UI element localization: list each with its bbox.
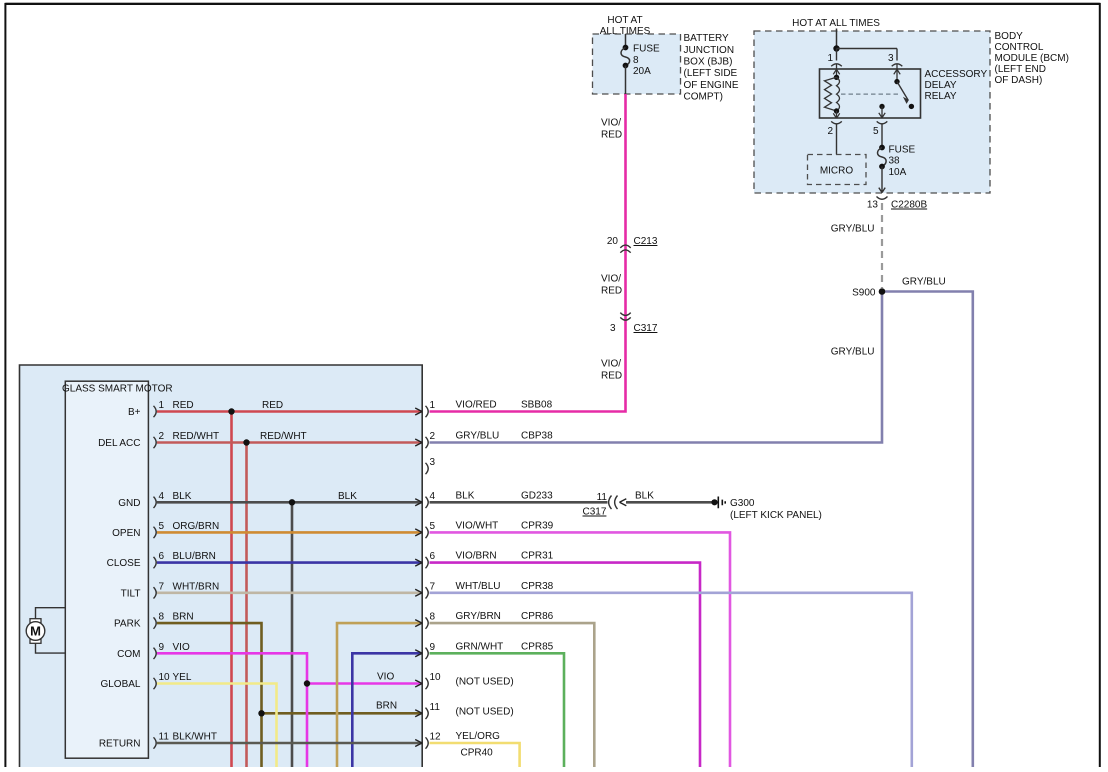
arrow into connector pin 10 <box>415 680 422 687</box>
svg-text:CLOSE: CLOSE <box>107 558 141 569</box>
wire ORG/BRN motor pin5 <box>157 531 422 534</box>
svg-text:BRN: BRN <box>173 612 194 623</box>
svg-text:GRN/WHT: GRN/WHT <box>456 641 504 652</box>
wire WHT/BRN motor pin7 <box>157 591 422 594</box>
svg-text:5: 5 <box>159 521 165 532</box>
svg-text:1: 1 <box>159 400 165 411</box>
wire fuse8 bottom <box>625 66 627 95</box>
svg-text:GRY/BLU: GRY/BLU <box>902 277 946 288</box>
svg-text:RED: RED <box>601 130 622 141</box>
svg-text:CBP38: CBP38 <box>521 431 553 442</box>
svg-text:FUSE: FUSE <box>889 145 916 156</box>
arrow into connector pin 12 <box>415 740 422 747</box>
svg-text:DEL ACC: DEL ACC <box>98 438 140 449</box>
svg-text:SBB08: SBB08 <box>521 400 553 411</box>
svg-text:8: 8 <box>159 612 165 623</box>
svg-text:RED/WHT: RED/WHT <box>173 431 220 442</box>
svg-text:RETURN: RETURN <box>99 739 141 750</box>
arrow into connector pin 11 <box>415 710 422 717</box>
svg-text:GRY/BLU: GRY/BLU <box>456 431 500 442</box>
svg-text:CPR39: CPR39 <box>521 520 554 531</box>
relay mechanical link (dashed) <box>841 93 901 95</box>
svg-text:10: 10 <box>430 672 442 683</box>
fuse F38 10A <box>879 145 885 151</box>
svg-text:VIO/: VIO/ <box>601 274 621 285</box>
ground G300 <box>711 499 717 505</box>
svg-text:GLOBAL: GLOBAL <box>100 679 140 690</box>
svg-text:6: 6 <box>159 551 165 562</box>
svg-text:YEL: YEL <box>173 672 192 683</box>
svg-text:RED/WHT: RED/WHT <box>260 431 307 442</box>
wire GRY/BLU S900 right <box>882 292 973 768</box>
svg-text:8: 8 <box>633 55 639 66</box>
body control module BCM dashed box <box>754 31 990 193</box>
svg-text:C317: C317 <box>583 507 607 518</box>
svg-text:DELAY: DELAY <box>925 80 957 91</box>
wire BRN to pin11 <box>262 712 422 715</box>
svg-text:BATTERY: BATTERY <box>684 33 730 44</box>
junction BRN <box>258 710 264 716</box>
connector pin 2 <box>426 437 429 448</box>
svg-text:5: 5 <box>430 521 436 532</box>
svg-text:COMPT): COMPT) <box>684 91 723 102</box>
fuse F8 20A <box>623 45 629 51</box>
arrow into connector pin 4 <box>415 499 422 506</box>
svg-text:(LEFT END: (LEFT END <box>995 64 1047 75</box>
wire BCM feed <box>836 29 838 49</box>
svg-text:1: 1 <box>827 53 833 64</box>
svg-text:2: 2 <box>159 431 165 442</box>
svg-text:RED: RED <box>173 400 194 411</box>
connector pin 9 <box>426 648 429 659</box>
wire BLK vertical <box>291 502 294 767</box>
svg-text:20A: 20A <box>633 66 651 77</box>
wire VIO/BRN pin6 <box>430 563 701 767</box>
svg-text:ORG/BRN: ORG/BRN <box>173 521 220 532</box>
svg-text:OF ENGINE: OF ENGINE <box>684 80 739 91</box>
wire GRY/BLU S900 down to pin2 <box>430 292 883 443</box>
svg-text:BODY: BODY <box>995 31 1024 42</box>
svg-text:VIO/: VIO/ <box>601 359 621 370</box>
svg-text:B+: B+ <box>128 407 141 418</box>
svg-text:4: 4 <box>430 491 436 502</box>
svg-text:ACCESSORY: ACCESSORY <box>925 69 988 80</box>
svg-text:3: 3 <box>888 53 894 64</box>
wire WHT/BLU pin7 <box>430 593 912 767</box>
svg-text:YEL/ORG: YEL/ORG <box>456 731 501 742</box>
wire VIO to pin10 <box>307 682 422 685</box>
svg-text:CONTROL: CONTROL <box>995 42 1044 53</box>
arrow into connector pin 2 <box>415 439 422 446</box>
connector pin 8 <box>426 617 429 628</box>
svg-text:VIO/BRN: VIO/BRN <box>456 551 497 562</box>
svg-text:MICRO: MICRO <box>820 166 854 177</box>
svg-text:G300: G300 <box>730 498 755 509</box>
svg-text:(LEFT SIDE: (LEFT SIDE <box>684 68 738 79</box>
connector pin 10 <box>426 678 429 689</box>
arrow into connector pin 9 <box>415 650 422 657</box>
svg-text:M: M <box>30 624 41 639</box>
svg-text:BLK: BLK <box>173 491 192 502</box>
wire RED motor pin1 <box>157 410 422 413</box>
relay switch exit arrow <box>879 107 885 118</box>
svg-text:6: 6 <box>430 551 436 562</box>
svg-text:WHT/BRN: WHT/BRN <box>173 581 220 592</box>
svg-text:8: 8 <box>430 612 436 623</box>
svg-text:CPR86: CPR86 <box>521 611 554 622</box>
svg-text:7: 7 <box>159 581 165 592</box>
svg-text:5: 5 <box>873 126 879 137</box>
MICRO dashed box <box>808 155 867 185</box>
svg-text:(LEFT KICK PANEL): (LEFT KICK PANEL) <box>730 510 822 521</box>
svg-text:C213: C213 <box>634 236 658 247</box>
svg-text:2: 2 <box>827 126 833 137</box>
svg-text:HOT AT ALL TIMES: HOT AT ALL TIMES <box>792 18 880 29</box>
arrow into connector pin 6 <box>415 559 422 566</box>
svg-text:VIO/: VIO/ <box>601 118 621 129</box>
svg-text:TILT: TILT <box>121 588 141 599</box>
wire to pin3 <box>837 49 898 61</box>
svg-text:12: 12 <box>430 732 442 743</box>
wire GRN/WHT pin9 <box>430 653 565 767</box>
svg-text:GD233: GD233 <box>521 490 553 501</box>
junction BLK <box>289 499 295 505</box>
junction RED/WHT <box>243 439 249 445</box>
svg-text:GRY/BRN: GRY/BRN <box>456 611 501 622</box>
wire BLK C317 to G300 <box>626 501 715 504</box>
svg-text:MODULE (BCM): MODULE (BCM) <box>995 53 1069 64</box>
svg-text:GLASS SMART MOTOR: GLASS SMART MOTOR <box>62 384 173 395</box>
svg-text:RED: RED <box>262 400 283 411</box>
wire BLK pin4 to C317 <box>430 501 608 504</box>
svg-text:GRY/BLU: GRY/BLU <box>831 347 875 358</box>
connector pin 7 <box>426 587 429 598</box>
relay coil <box>833 69 839 74</box>
svg-text:VIO: VIO <box>173 642 190 653</box>
svg-text:(NOT USED): (NOT USED) <box>456 677 514 688</box>
svg-text:BOX (BJB): BOX (BJB) <box>684 57 733 68</box>
connector pin 6 <box>426 557 429 568</box>
svg-text:CPR40: CPR40 <box>461 748 494 759</box>
svg-text:BLK: BLK <box>338 491 357 502</box>
svg-text:10A: 10A <box>889 167 907 178</box>
wire YEL/ORG pin12 <box>430 743 520 767</box>
svg-text:PARK: PARK <box>114 619 141 630</box>
svg-text:GRY/BLU: GRY/BLU <box>831 224 875 235</box>
svg-text:11: 11 <box>597 492 608 503</box>
junction RED <box>228 408 234 414</box>
svg-text:(NOT USED): (NOT USED) <box>456 706 514 717</box>
wire fuse38 to pin13 <box>879 167 885 193</box>
glass smart motor inner module <box>65 381 148 758</box>
wire RED/WHT motor pin2 <box>157 441 422 444</box>
wire fuse8 top <box>625 34 627 47</box>
wire pin2 to micro <box>836 125 838 155</box>
svg-text:2: 2 <box>430 431 436 442</box>
svg-text:VIO/RED: VIO/RED <box>456 400 497 411</box>
wire VIO/WHT pin5 <box>430 532 731 767</box>
wire RED vertical <box>230 412 233 768</box>
connector pin 12 <box>426 737 429 748</box>
svg-text:BLK: BLK <box>635 491 654 502</box>
svg-text:WHT/BLU: WHT/BLU <box>456 581 501 592</box>
wire GRY/BRN pin8 <box>430 623 595 767</box>
svg-text:COM: COM <box>117 649 140 660</box>
glass smart motor outer box <box>20 365 423 768</box>
svg-text:HOT AT: HOT AT <box>607 15 642 26</box>
connector pin 4 <box>426 497 429 508</box>
svg-text:4: 4 <box>159 491 165 502</box>
svg-text:3: 3 <box>610 323 616 334</box>
svg-text:CPR38: CPR38 <box>521 581 554 592</box>
svg-text:RELAY: RELAY <box>925 91 957 102</box>
svg-text:VIO/WHT: VIO/WHT <box>456 520 499 531</box>
arrow into connector pin 1 <box>415 408 422 415</box>
wire VIO/RED BJB to pin1 <box>430 94 626 412</box>
svg-text:VIO: VIO <box>377 672 394 683</box>
svg-text:CPR31: CPR31 <box>521 551 554 562</box>
wire BLU/BRN motor pin6 <box>157 561 422 564</box>
svg-text:C317: C317 <box>634 323 658 334</box>
connector pin 5 <box>426 527 429 538</box>
wire BLK/WHT motor pin11 <box>157 742 422 745</box>
junction <box>833 45 839 51</box>
svg-text:RED: RED <box>601 371 622 382</box>
pin 5 <box>877 121 888 124</box>
wire BRN motor pin8 <box>157 623 262 767</box>
battery junction box BJB dashed box <box>593 34 681 94</box>
svg-text:OF DASH): OF DASH) <box>995 75 1043 86</box>
svg-text:FUSE: FUSE <box>633 44 660 55</box>
svg-text:JUNCTION: JUNCTION <box>684 45 735 56</box>
svg-text:20: 20 <box>607 236 619 247</box>
svg-text:7: 7 <box>430 581 436 592</box>
motor M1 <box>36 608 66 653</box>
connector pin 3 <box>426 463 429 474</box>
wire YEL motor pin10 <box>157 684 277 768</box>
wire GRY/BLU dashed C2280B to S900 <box>881 203 883 288</box>
svg-text:38: 38 <box>889 156 901 167</box>
relay switch <box>894 69 900 74</box>
connector pin 11 <box>426 708 429 719</box>
arrow into connector pin 5 <box>415 529 422 536</box>
arrow into connector pin 8 <box>415 620 422 627</box>
svg-text:RED: RED <box>601 286 622 297</box>
svg-text:BLK: BLK <box>456 490 475 501</box>
svg-text:CPR85: CPR85 <box>521 641 554 652</box>
splice S900 junction <box>879 288 886 295</box>
connector pin 1 <box>426 406 429 417</box>
wire VIO motor pin9 <box>157 653 307 767</box>
svg-text:3: 3 <box>430 457 436 468</box>
svg-text:9: 9 <box>159 642 165 653</box>
accessory delay relay box <box>820 69 921 118</box>
svg-text:13: 13 <box>867 200 879 211</box>
wire BLU vertical to pin9 <box>352 653 421 767</box>
svg-text:BLK/WHT: BLK/WHT <box>173 732 217 743</box>
svg-text:10: 10 <box>159 672 171 683</box>
svg-text:1: 1 <box>430 400 436 411</box>
svg-text:11: 11 <box>159 732 170 743</box>
svg-text:GND: GND <box>118 498 140 509</box>
svg-text:C2280B: C2280B <box>891 200 927 211</box>
relay coil exit arrow <box>833 111 839 118</box>
svg-text:S900: S900 <box>852 288 876 299</box>
wire BLK motor pin4 <box>157 501 422 504</box>
svg-text:BRN: BRN <box>376 700 397 711</box>
junction VIO <box>304 680 310 686</box>
svg-text:9: 9 <box>430 642 436 653</box>
arrow into connector pin 7 <box>415 589 422 596</box>
svg-text:OPEN: OPEN <box>112 528 140 539</box>
svg-text:BLU/BRN: BLU/BRN <box>173 551 216 562</box>
wire RED/WHT vertical <box>245 443 248 768</box>
pin 2 <box>831 121 842 124</box>
wire pin5 to fuse38 <box>881 125 883 148</box>
svg-text:11: 11 <box>430 702 441 713</box>
wire GRY/BRN vertical to pin8 <box>337 623 422 767</box>
